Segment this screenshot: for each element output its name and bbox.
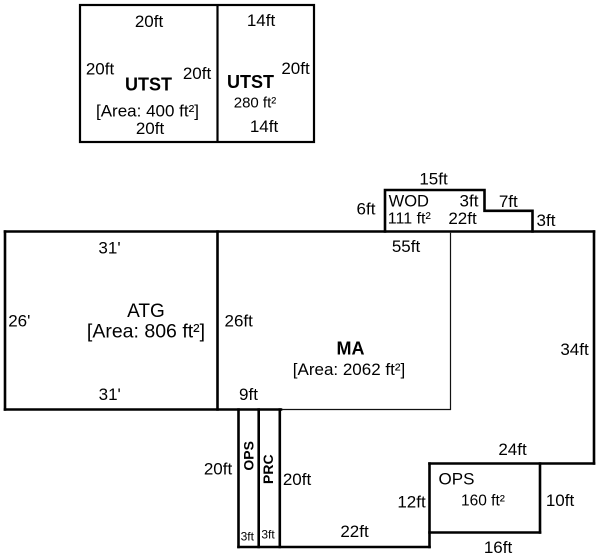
svg-text:OPS: OPS bbox=[241, 441, 257, 471]
svg-text:3ft: 3ft bbox=[537, 211, 556, 230]
svg-text:[Area: 400 ft²]: [Area: 400 ft²] bbox=[96, 102, 199, 121]
wall main left edge bbox=[4, 230, 7, 411]
svg-text:16ft: 16ft bbox=[484, 538, 513, 557]
thin wall MA right boundary bbox=[450, 233, 452, 410]
svg-text:20ft: 20ft bbox=[283, 470, 312, 489]
wall PRC corridor right bbox=[278, 408, 281, 548]
wall ATG bottom edge bbox=[4, 408, 283, 411]
svg-text:31': 31' bbox=[99, 385, 121, 404]
wall ATG/MA divider bbox=[216, 230, 219, 411]
wall main right edge bbox=[593, 230, 596, 465]
svg-text:PRC: PRC bbox=[260, 454, 276, 484]
svg-text:20ft: 20ft bbox=[204, 460, 233, 479]
svg-text:[Area: 2062 ft²]: [Area: 2062 ft²] bbox=[293, 360, 405, 379]
thin wall MA bottom boundary bbox=[282, 409, 451, 411]
svg-text:15ft: 15ft bbox=[419, 170, 448, 189]
svg-text:3ft: 3ft bbox=[460, 192, 479, 211]
svg-text:20ft: 20ft bbox=[135, 12, 164, 31]
svg-text:[Area: 806 ft²]: [Area: 806 ft²] bbox=[87, 321, 205, 343]
svg-text:3ft: 3ft bbox=[261, 528, 275, 542]
room UTST-1 outer wall bbox=[80, 5, 314, 142]
svg-text:9ft: 9ft bbox=[239, 385, 258, 404]
svg-text:UTST: UTST bbox=[125, 75, 172, 95]
svg-text:3ft: 3ft bbox=[241, 530, 255, 544]
svg-text:24ft: 24ft bbox=[498, 440, 527, 459]
wall WOD bump outline bbox=[385, 190, 533, 233]
svg-text:26': 26' bbox=[8, 311, 30, 330]
svg-text:20ft: 20ft bbox=[183, 64, 212, 83]
wall main top edge bbox=[4, 230, 596, 233]
svg-text:26ft: 26ft bbox=[225, 312, 254, 331]
wall bottom edge (22ft) bbox=[237, 546, 431, 549]
wall divider between UTST rooms bbox=[216, 5, 218, 142]
wall OPS corridor left bbox=[237, 408, 240, 548]
wall 24ft edge above OPS room bbox=[428, 462, 595, 465]
svg-text:10ft: 10ft bbox=[546, 491, 575, 510]
svg-text:22ft: 22ft bbox=[448, 209, 477, 228]
svg-text:111 ft²: 111 ft² bbox=[388, 211, 432, 228]
svg-text:160 ft²: 160 ft² bbox=[461, 493, 505, 510]
wall OPS/PRC corridor divider bbox=[257, 408, 260, 548]
svg-text:34ft: 34ft bbox=[560, 340, 589, 359]
svg-text:14ft: 14ft bbox=[250, 117, 279, 136]
svg-text:6ft: 6ft bbox=[357, 200, 376, 219]
svg-text:7ft: 7ft bbox=[499, 192, 518, 211]
svg-text:14ft: 14ft bbox=[247, 11, 276, 30]
svg-text:MA: MA bbox=[337, 338, 365, 358]
svg-text:12ft: 12ft bbox=[397, 493, 426, 512]
svg-text:20ft: 20ft bbox=[86, 60, 115, 79]
svg-text:ATG: ATG bbox=[127, 301, 165, 322]
svg-text:UTST: UTST bbox=[227, 72, 274, 92]
svg-text:55ft: 55ft bbox=[392, 237, 421, 256]
svg-text:20ft: 20ft bbox=[136, 119, 165, 138]
wall OPS-room left edge extended (12ft) bbox=[428, 462, 431, 548]
svg-text:22ft: 22ft bbox=[340, 522, 369, 541]
svg-text:31': 31' bbox=[98, 239, 120, 258]
svg-text:20ft: 20ft bbox=[281, 59, 310, 78]
svg-text:OPS: OPS bbox=[439, 470, 475, 489]
svg-text:WOD: WOD bbox=[389, 193, 429, 211]
wall OPS room bottom edge (16ft) bbox=[428, 531, 541, 534]
wall OPS room right edge bbox=[539, 462, 542, 534]
svg-text:280 ft²: 280 ft² bbox=[234, 95, 277, 112]
